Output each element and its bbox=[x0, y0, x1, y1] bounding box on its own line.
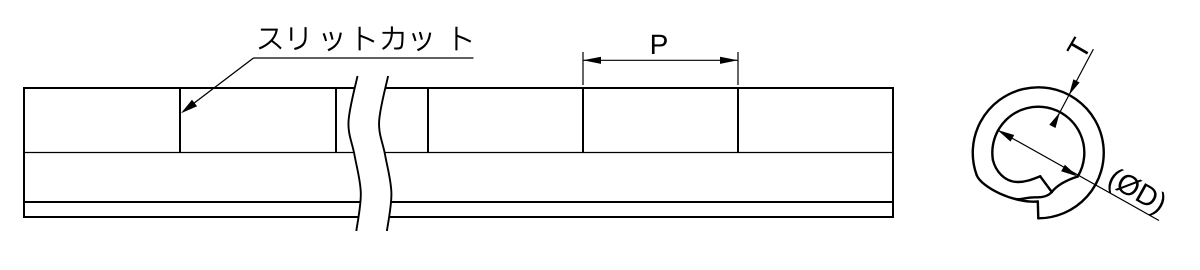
dimension T leader through wall bbox=[1053, 49, 1094, 125]
dimension P extension line right bbox=[737, 52, 739, 85]
slit line 2 bbox=[335, 88, 337, 153]
dimension P text bbox=[652, 35, 667, 54]
leader arrowhead bbox=[181, 100, 197, 114]
dimension T outer arrow (points inward at outer circle) bbox=[1069, 79, 1080, 95]
tube bottom edge bbox=[24, 216, 893, 218]
tube top edge bbox=[24, 87, 893, 89]
leader line to slit bbox=[183, 58, 254, 112]
tube mid line (far-side slit line) bbox=[24, 152, 893, 154]
cross-section tucked-end cut edge bbox=[1040, 176, 1052, 192]
tube left end edge bbox=[23, 87, 25, 218]
break gap white mask bbox=[348, 76, 391, 231]
slit line 1 bbox=[179, 88, 181, 153]
dimension D arrow upper-left bbox=[998, 130, 1015, 142]
break line right bbox=[379, 76, 391, 231]
dimension P arrow left bbox=[583, 57, 601, 64]
dimension P line bbox=[583, 59, 738, 61]
cross-section outer circle arc bbox=[973, 87, 1104, 218]
dimension D text (ØD) rotated bbox=[1105, 166, 1169, 218]
tube lower inner line bbox=[24, 201, 893, 203]
dimension P extension line left bbox=[582, 52, 584, 85]
slit line 3 bbox=[427, 88, 429, 153]
cross-section bore arc bbox=[992, 107, 1084, 177]
tube body outline (side view) bbox=[24, 87, 893, 218]
slit line 5 bbox=[737, 88, 739, 153]
dimension T inner arrow (points outward at inner circle) bbox=[1049, 112, 1060, 128]
cross-section tucked-end outer spiral bbox=[1052, 177, 1078, 193]
cross-section hook bottom edge bbox=[1016, 192, 1052, 199]
dimension T text (rotated) bbox=[1066, 36, 1091, 60]
dimension P arrow right bbox=[720, 57, 738, 64]
cross-section hook top edge bbox=[993, 160, 1040, 182]
break line left bbox=[348, 76, 360, 231]
label スリットカット (as glyph paths) bbox=[259, 26, 471, 51]
cross-section outer-end cut line bbox=[1037, 202, 1040, 219]
tube right end edge bbox=[892, 87, 894, 218]
dimension D arrow lower-right bbox=[1061, 165, 1078, 177]
slit line 4 bbox=[582, 88, 584, 153]
dimension D line (diameter, extended to label) bbox=[998, 130, 1160, 221]
label underline bbox=[254, 57, 474, 59]
cross-section outer-end inner spiral bbox=[977, 175, 1038, 201]
